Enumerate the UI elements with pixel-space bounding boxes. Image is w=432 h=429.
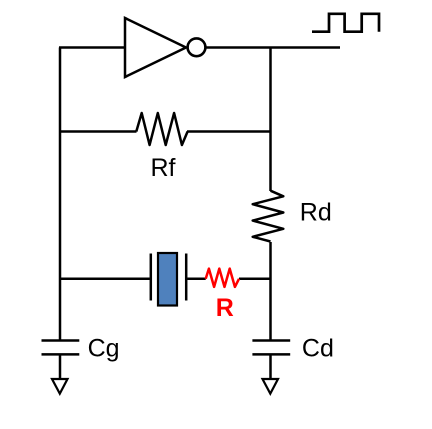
svg-text:Cg: Cg	[88, 335, 120, 363]
svg-text:Cd: Cd	[302, 335, 334, 363]
svg-text:R: R	[216, 294, 234, 322]
svg-text:Rd: Rd	[300, 199, 332, 227]
svg-text:Rf: Rf	[151, 154, 176, 182]
